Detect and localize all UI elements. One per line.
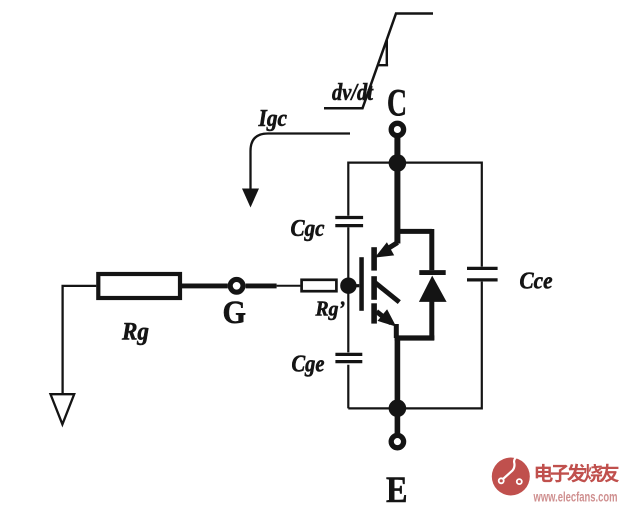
svg-text:dv/dt: dv/dt — [332, 80, 374, 106]
svg-text:C: C — [387, 82, 407, 125]
svg-text:Cgc: Cgc — [291, 216, 325, 242]
svg-text:G: G — [223, 295, 247, 331]
svg-text:Cge: Cge — [292, 351, 325, 377]
svg-text:Igc: Igc — [258, 106, 288, 132]
svg-text:Cce: Cce — [520, 268, 553, 294]
svg-text:Rg: Rg — [121, 319, 149, 346]
svg-text:E: E — [386, 470, 408, 508]
svg-text:www.elecfans.com: www.elecfans.com — [533, 489, 618, 505]
svg-text:Rg’: Rg’ — [315, 296, 345, 320]
